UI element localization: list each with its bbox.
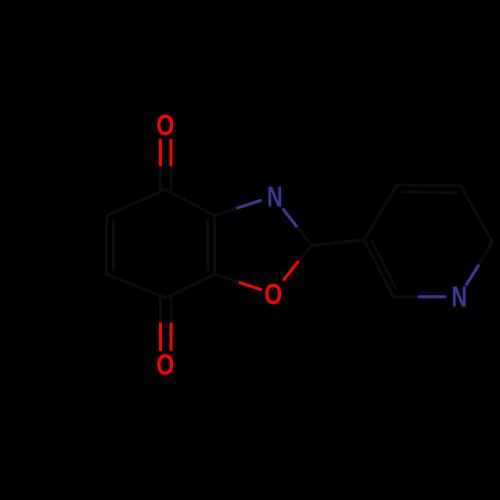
- svg-text:O: O: [156, 350, 174, 381]
- wire: pyridine C2'-N bond black half: [393, 295, 419, 298]
- wire: C7=O bottom double bond red halves: [161, 324, 172, 350]
- wire: oxazole O-C7a bond red half: [238, 282, 261, 290]
- wire: quinone ring edges: [107, 189, 215, 298]
- wire: C7=O bottom double bond black halves: [161, 298, 172, 324]
- svg-text:N: N: [452, 282, 468, 314]
- wire: oxazole O-C7a bond black half: [215, 274, 238, 282]
- wire: oxazole N-C2 bond black half: [298, 228, 312, 246]
- svg-text:O: O: [264, 280, 282, 311]
- svg-text:N: N: [267, 182, 283, 214]
- wire: pyridine N-C6' bond blue half: [466, 264, 479, 285]
- wire: oxazole N-C2 bond blue half: [283, 209, 297, 228]
- wire: C4=O top double bond black halves: [160, 165, 171, 190]
- wire: C4=O top double bond red halves: [160, 140, 171, 165]
- wire: oxazole C3a-N bond black half: [215, 208, 238, 216]
- wire: pyridine ring edges: [364, 185, 492, 297]
- svg-text:O: O: [156, 111, 174, 142]
- wire: C2-pyridine C3' bond: [312, 240, 364, 246]
- wire: pyridine C2'-N bond blue half: [419, 295, 445, 298]
- wire: pyridine N-C6' bond black half: [480, 242, 493, 264]
- wire: oxazole C3a-N bond blue half: [238, 200, 261, 208]
- wire: oxazole C2-O bond red half: [284, 262, 298, 280]
- wire: oxazole C2-O bond black half: [298, 246, 312, 263]
